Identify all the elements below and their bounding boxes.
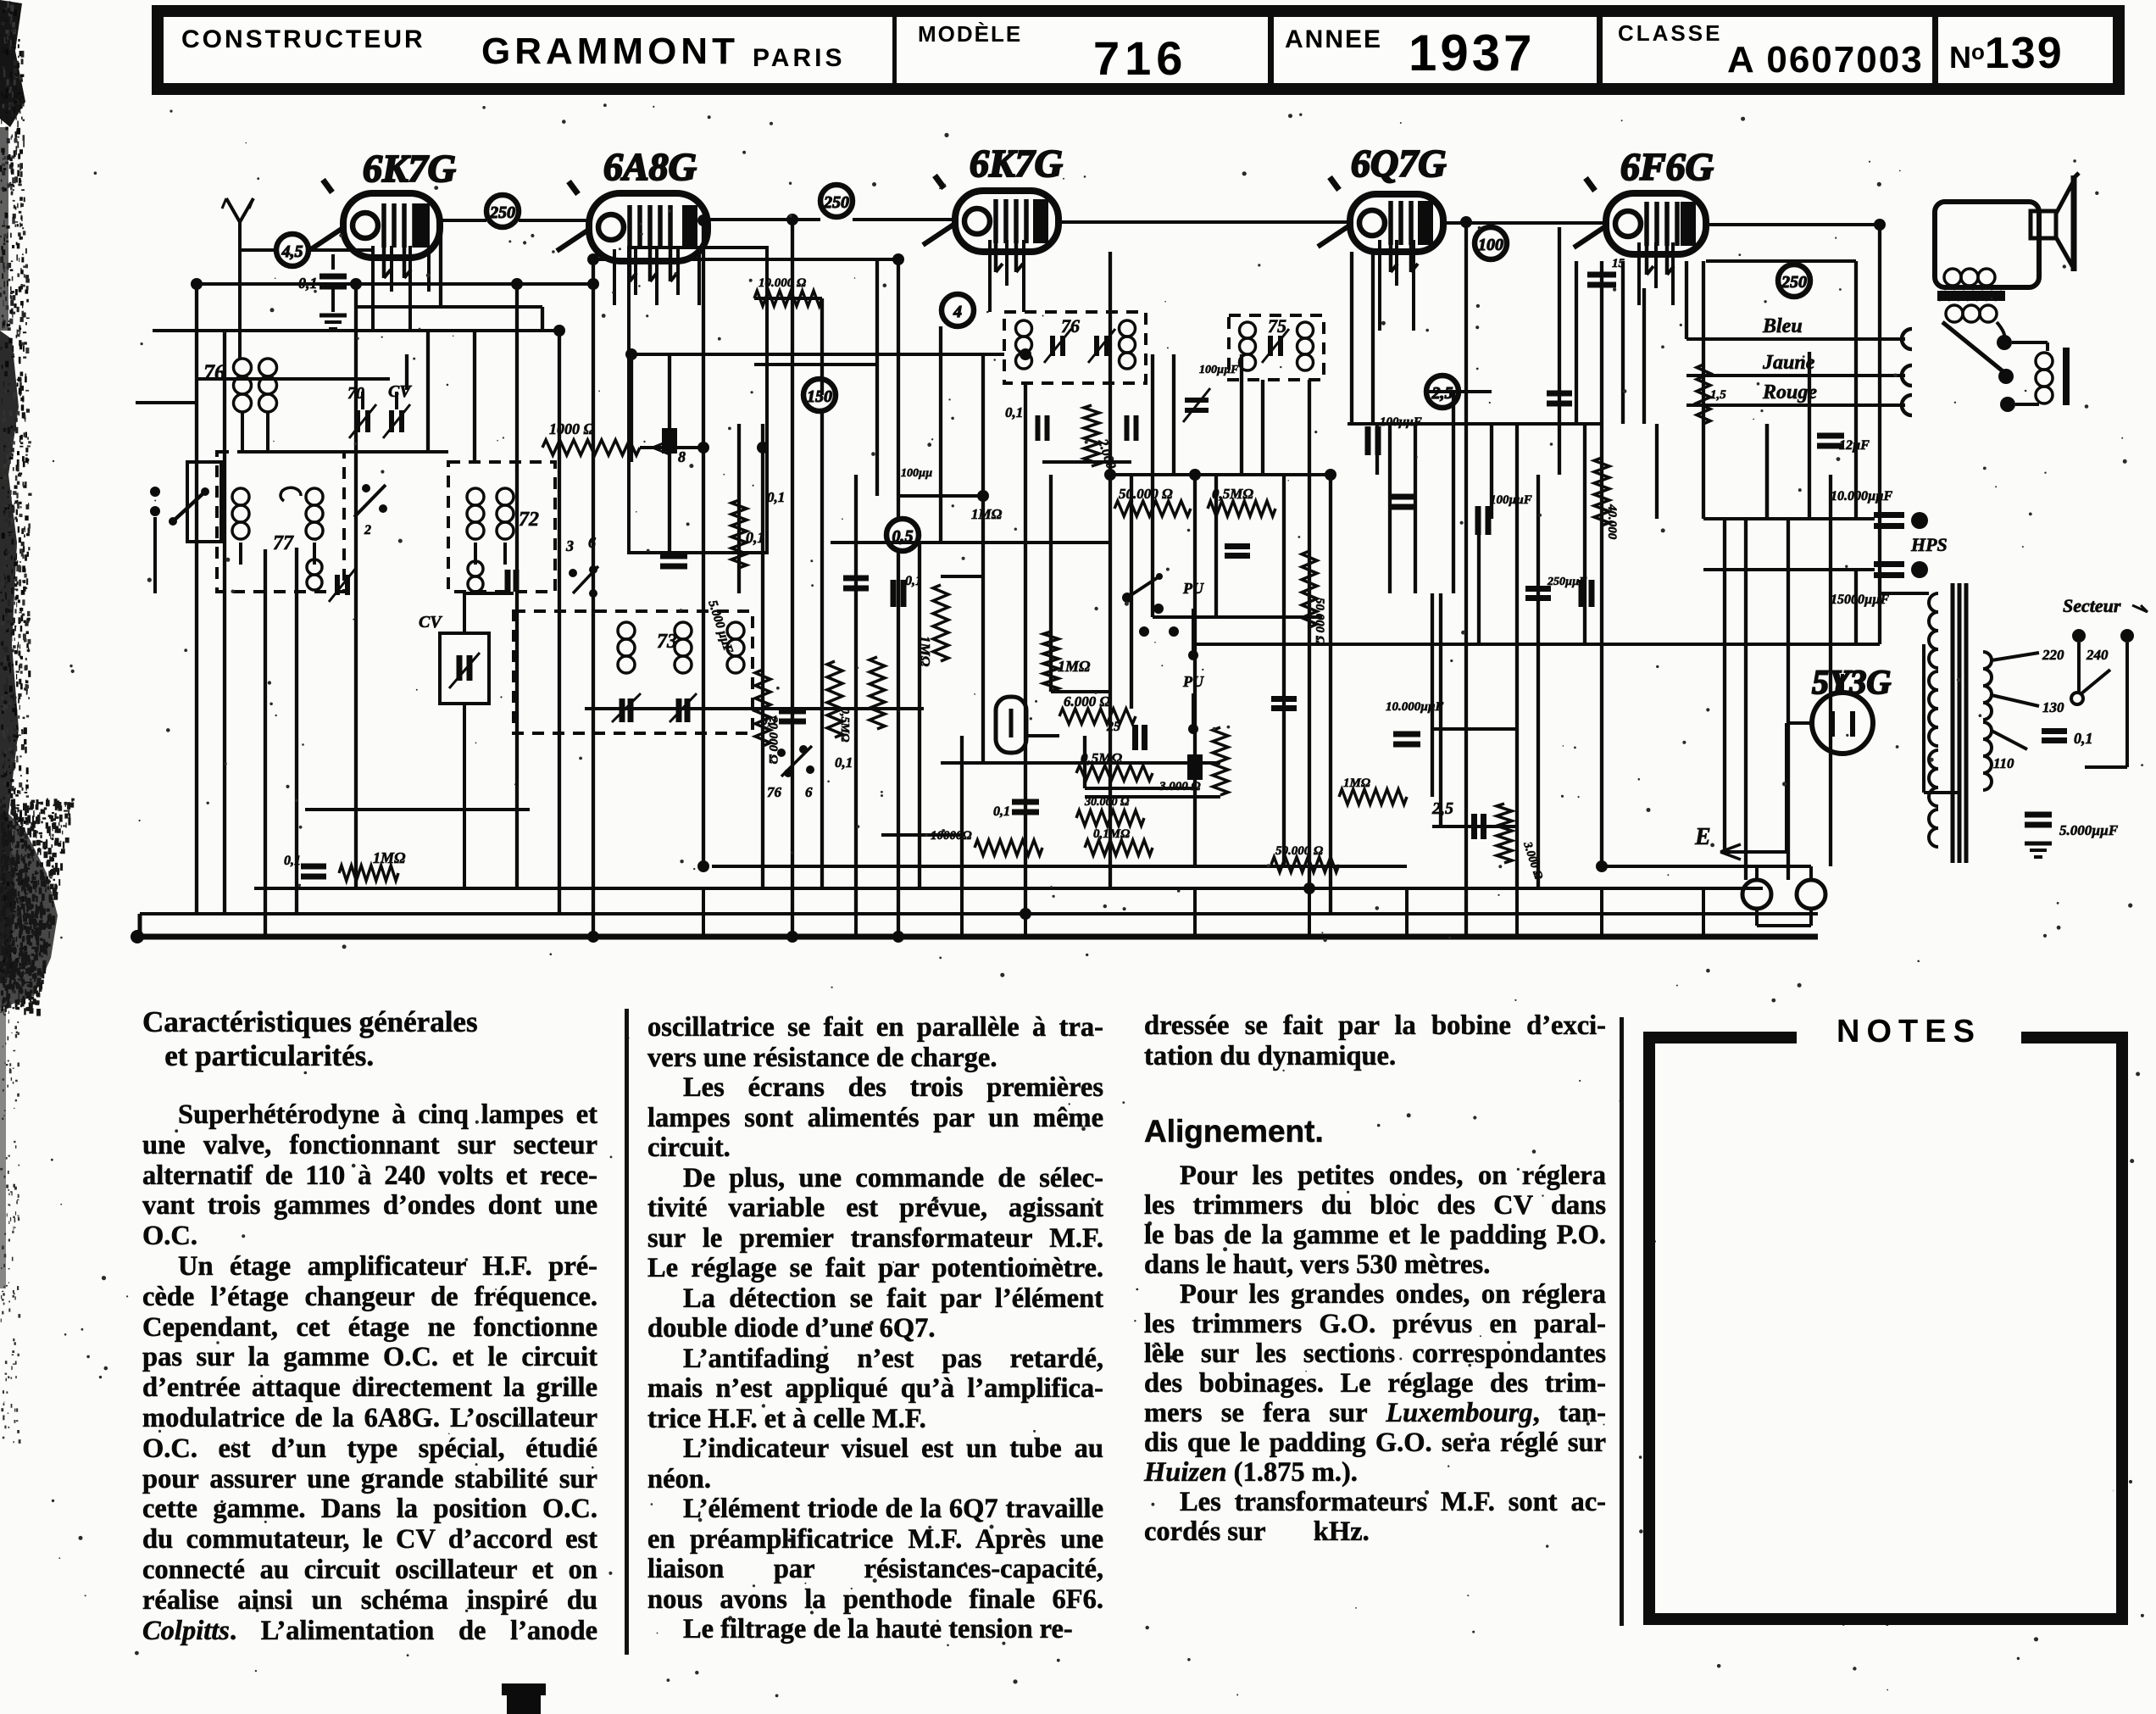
svg-text:0,1: 0,1	[835, 754, 853, 771]
svg-text:Secteur: Secteur	[2063, 595, 2121, 616]
svg-text:1000 Ω: 1000 Ω	[549, 420, 596, 437]
svg-text:8: 8	[678, 448, 686, 465]
svg-text:2,5: 2,5	[1431, 799, 1453, 818]
svg-text:1MΩ: 1MΩ	[917, 636, 933, 667]
svg-text:1MΩ: 1MΩ	[1058, 658, 1091, 675]
svg-text:76: 76	[1061, 315, 1080, 337]
svg-text:15: 15	[1612, 257, 1625, 270]
svg-text:100µµF: 100µµF	[1380, 415, 1422, 429]
svg-text:0,1: 0,1	[2074, 730, 2093, 747]
svg-text:10.000 Ω: 10.000 Ω	[758, 276, 806, 290]
svg-text:50.000 Ω: 50.000 Ω	[1275, 844, 1323, 858]
svg-text:12µF: 12µF	[1839, 438, 1870, 453]
svg-text:6Q7G: 6Q7G	[1351, 142, 1446, 185]
svg-text:250: 250	[823, 193, 849, 212]
svg-text:10.000µµF: 10.000µµF	[1386, 700, 1444, 714]
svg-text:6K7G: 6K7G	[970, 142, 1063, 185]
svg-text:50.000 Ω: 50.000 Ω	[1119, 486, 1173, 502]
svg-text:1MΩ: 1MΩ	[373, 849, 406, 866]
svg-text:10.000µµF: 10.000µµF	[1831, 489, 1892, 504]
svg-text:3: 3	[565, 537, 574, 554]
svg-text:E: E	[1694, 824, 1711, 850]
svg-text:0,5MΩ: 0,5MΩ	[1081, 750, 1122, 766]
svg-text:PU: PU	[1182, 580, 1204, 597]
svg-text:0,1: 0,1	[993, 804, 1010, 819]
svg-text:Jaune: Jaune	[1762, 352, 1815, 374]
svg-text:0,1: 0,1	[905, 574, 922, 588]
svg-text:0,1: 0,1	[1005, 404, 1023, 420]
svg-text:0,5MΩ: 0,5MΩ	[1212, 486, 1253, 502]
svg-text:0,1: 0,1	[746, 529, 765, 546]
svg-text:10000Ω: 10000Ω	[931, 829, 972, 843]
svg-text:100µµF: 100µµF	[1490, 493, 1532, 507]
svg-text:150: 150	[807, 387, 832, 406]
svg-text:5.000µµF: 5.000µµF	[2059, 822, 2119, 838]
svg-text:100µµF: 100µµF	[1199, 364, 1239, 376]
svg-text:4: 4	[953, 303, 962, 321]
svg-text:76: 76	[203, 360, 225, 385]
svg-text:6.000 Ω: 6.000 Ω	[1064, 693, 1111, 710]
svg-text:240: 240	[2086, 647, 2109, 663]
svg-text:30.000 Ω: 30.000 Ω	[1084, 796, 1130, 809]
svg-text:0,1: 0,1	[284, 854, 301, 868]
svg-text:4,5: 4,5	[281, 242, 303, 261]
svg-text:0,1: 0,1	[761, 714, 778, 728]
svg-text:1MΩ: 1MΩ	[971, 506, 1003, 522]
svg-text:CV: CV	[419, 613, 442, 632]
svg-text:40.000: 40.000	[1605, 504, 1619, 540]
svg-text:250µµF: 250µµF	[1547, 576, 1587, 588]
svg-text:110: 110	[1993, 755, 2014, 771]
svg-text:1,5: 1,5	[1710, 388, 1726, 402]
svg-text:250: 250	[489, 203, 515, 222]
svg-text:6: 6	[805, 784, 813, 800]
svg-text:3.000 Ω: 3.000 Ω	[1159, 780, 1201, 793]
svg-text:130: 130	[2042, 699, 2064, 715]
svg-text:76: 76	[767, 784, 782, 800]
svg-text:100µµ: 100µµ	[901, 467, 932, 480]
svg-text:73: 73	[657, 631, 677, 653]
svg-text:6F6G: 6F6G	[1620, 145, 1714, 188]
svg-text:25: 25	[1106, 720, 1120, 734]
svg-text:72: 72	[519, 509, 539, 531]
svg-text:5.000 µµF: 5.000 µµF	[705, 598, 735, 655]
svg-text:75: 75	[1268, 315, 1286, 337]
svg-text:6K7G: 6K7G	[363, 147, 456, 190]
svg-text:0,1MΩ: 0,1MΩ	[1093, 827, 1130, 841]
svg-text:HPS: HPS	[1910, 534, 1948, 555]
svg-text:1MΩ: 1MΩ	[1343, 776, 1370, 790]
svg-text:0,1: 0,1	[767, 489, 785, 505]
svg-text:6A8G: 6A8G	[603, 145, 697, 188]
svg-text:Rouge: Rouge	[1762, 381, 1817, 403]
svg-text:PU: PU	[1182, 673, 1204, 690]
svg-text:Bleu: Bleu	[1762, 315, 1803, 337]
svg-text:3.000 Ω: 3.000 Ω	[1520, 840, 1545, 882]
svg-text:5Y3G: 5Y3G	[1812, 663, 1891, 701]
svg-text:0,5MΩ: 0,5MΩ	[838, 708, 851, 743]
svg-text:220: 220	[2042, 647, 2064, 663]
svg-text:100: 100	[1478, 236, 1503, 254]
svg-text:2: 2	[364, 523, 371, 537]
svg-text:50.000 Ω: 50.000 Ω	[1313, 598, 1326, 645]
svg-text:77: 77	[273, 532, 294, 554]
svg-text:250: 250	[1781, 273, 1807, 292]
